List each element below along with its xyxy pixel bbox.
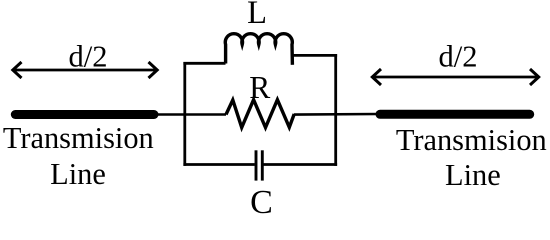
svg-text:R: R [249,70,270,105]
svg-text:Line: Line [445,158,501,192]
svg-text:L: L [247,0,267,31]
svg-text:d/2: d/2 [439,40,478,74]
svg-text:Transmision: Transmision [396,123,547,157]
svg-text:Line: Line [50,157,106,191]
svg-text:C: C [250,184,273,217]
svg-text:Transmision: Transmision [3,121,154,155]
